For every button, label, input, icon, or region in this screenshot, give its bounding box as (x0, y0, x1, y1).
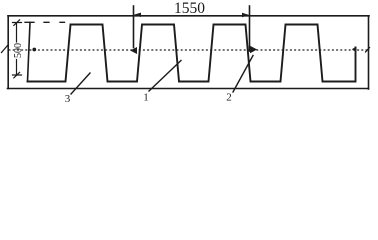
sheet A end dot (32, 48, 36, 52)
centerline end tick right (366, 48, 370, 53)
dimension 500 top end tick (13, 20, 22, 26)
dimension arrow 1550 right (242, 13, 249, 17)
dimension line 500 lower segment (16, 60, 18, 76)
leader line label 3 (71, 73, 90, 94)
svg-text:2: 2 (226, 92, 232, 104)
lap joint arrow A (points left) (130, 47, 137, 54)
svg-text:500: 500 (13, 43, 24, 58)
frame bottom line (8, 88, 369, 90)
frame top line / dimension line 1550 (8, 15, 369, 17)
svg-text:1: 1 (143, 92, 149, 104)
lap joint arrow B (points right) (250, 46, 257, 53)
dimension line 500 upper segment (16, 23, 18, 42)
leader line label 1 (149, 61, 181, 92)
sheet profile polyline (28, 25, 356, 82)
svg-text:3: 3 (65, 93, 71, 105)
svg-text:1550: 1550 (174, 0, 205, 17)
dimension 500 bottom end tick (13, 72, 22, 78)
centerline dash-dot (9, 49, 368, 51)
leader line label 2 (233, 56, 253, 93)
centerline end tick left (2, 46, 8, 53)
dimension arrow 1550 left (134, 13, 141, 17)
sheet left end web (28, 23, 31, 82)
frame right border (368, 16, 370, 89)
sheet right end arrow (352, 47, 357, 53)
extension line lap joint B (249, 6, 251, 51)
frame left border (7, 16, 9, 89)
extension line lap joint A (133, 6, 135, 48)
dashed top reference line (25, 21, 65, 23)
